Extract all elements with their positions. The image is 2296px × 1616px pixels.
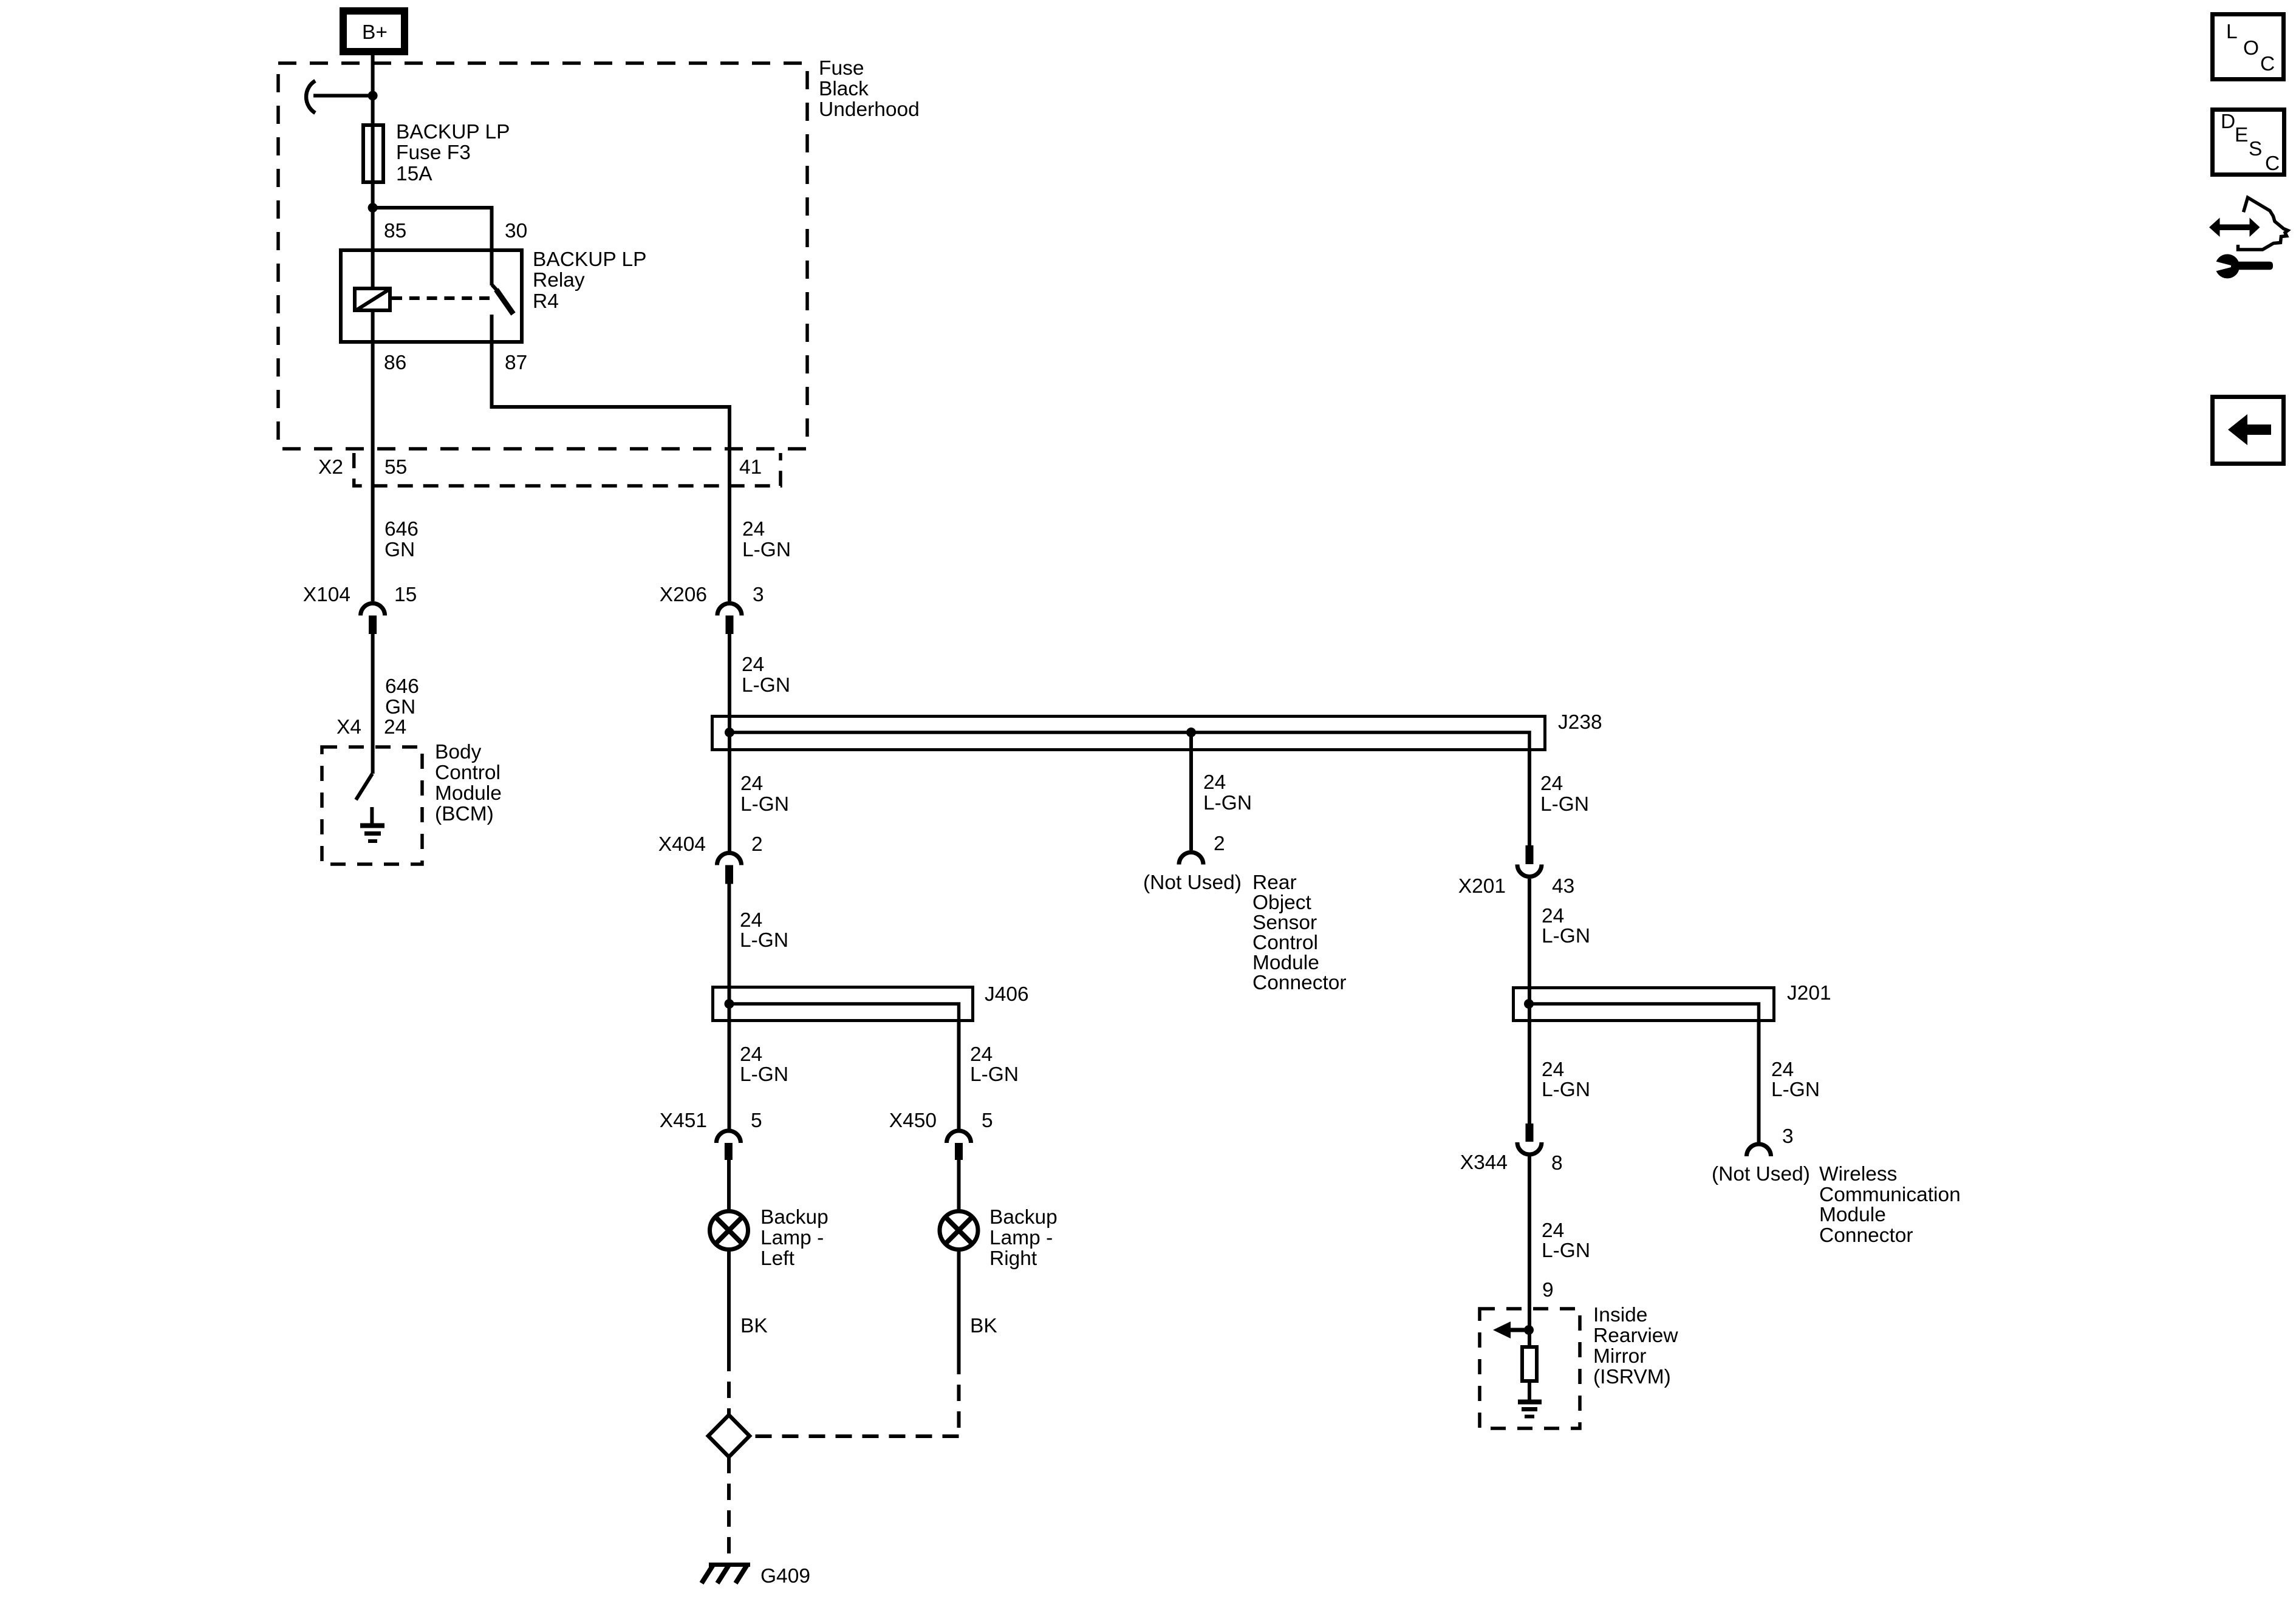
svg-text:2: 2 (1214, 833, 1225, 855)
wire label 646 GN lower (385, 675, 419, 718)
relay switch contact 30 (490, 248, 494, 285)
svg-text:Module: Module (1819, 1204, 1886, 1226)
svg-text:Relay: Relay (533, 269, 585, 291)
connector X2 dashed bracket (354, 453, 781, 486)
svg-text:Wireless: Wireless (1819, 1163, 1897, 1185)
svg-text:87: 87 (505, 352, 527, 374)
svg-text:Inside: Inside (1593, 1304, 1647, 1326)
svg-text:Control: Control (435, 762, 501, 784)
svg-text:L-GN: L-GN (1540, 793, 1589, 816)
icon LOC box (2213, 15, 2284, 80)
connector X206 pin 3 (660, 584, 764, 634)
relay switch contact 87 (490, 315, 494, 344)
wire label 646 GN upper (384, 518, 419, 561)
connector X450 pin 5 (889, 1110, 993, 1160)
icon DESC box (2213, 110, 2284, 176)
svg-text:C: C (2260, 53, 2275, 75)
wire mid branch J238 to not-used connector (1189, 732, 1193, 850)
svg-text:43: 43 (1552, 875, 1574, 898)
wire pin 87 down right through X2 pin 41 (492, 344, 730, 601)
svg-text:(BCM): (BCM) (435, 803, 494, 825)
wire label 24 L-GN below J238 left (740, 772, 789, 816)
svg-text:24: 24 (740, 1043, 762, 1066)
svg-text:Fuse: Fuse (819, 57, 864, 80)
svg-text:X4: X4 (337, 716, 361, 738)
svg-text:L-GN: L-GN (1542, 925, 1590, 947)
fuse block dashed box Fuse Black Underhood (278, 63, 807, 449)
relay R4 box (341, 248, 646, 342)
svg-text:(Not Used): (Not Used) (1143, 871, 1242, 894)
wire J406 right to X450 (957, 1022, 961, 1129)
svg-text:X450: X450 (889, 1110, 937, 1132)
svg-text:Mirror: Mirror (1593, 1345, 1646, 1368)
svg-text:O: O (2243, 37, 2259, 60)
svg-text:X201: X201 (1458, 875, 1506, 898)
ISRVM earth ground (1518, 1402, 1542, 1417)
junction node above relay (368, 203, 378, 213)
svg-text:BACKUP LP: BACKUP LP (533, 248, 646, 271)
splice busbar J406 (713, 983, 1029, 1024)
power symbol B+ (343, 11, 405, 52)
ground G409 (702, 1565, 810, 1588)
BCM earth ground (360, 826, 384, 842)
svg-text:15A: 15A (396, 163, 432, 185)
svg-text:646: 646 (385, 675, 419, 698)
junction node at B+ stub (368, 91, 378, 101)
svg-text:R4: R4 (533, 290, 559, 313)
svg-text:Communication: Communication (1819, 1184, 1961, 1206)
svg-text:L-GN: L-GN (970, 1063, 1019, 1086)
svg-text:Lamp -: Lamp - (760, 1227, 824, 1249)
not used connector WCM pin 3 (1712, 1125, 1810, 1185)
svg-text:L-GN: L-GN (740, 793, 789, 816)
ISRVM dashed box (1480, 1309, 1580, 1428)
icon vehicle outline (2238, 197, 2288, 250)
svg-text:86: 86 (384, 352, 406, 374)
wire X404 to J406 (728, 884, 731, 986)
svg-text:Connector: Connector (1252, 972, 1347, 994)
svg-text:BK: BK (740, 1315, 768, 1337)
svg-text:D: D (2221, 111, 2235, 133)
svg-text:646: 646 (384, 518, 419, 540)
wire branch to relay pin 30 (373, 208, 492, 248)
svg-text:Backup: Backup (760, 1206, 829, 1229)
svg-text:24: 24 (1540, 772, 1563, 795)
BCM internal ground stub (370, 807, 374, 824)
svg-text:J201: J201 (1787, 982, 1831, 1004)
svg-text:3: 3 (753, 584, 764, 606)
wire label 24 L-GN right (1540, 772, 1589, 816)
svg-text:X104: X104 (303, 584, 350, 606)
wire J238 through to X404 (728, 715, 731, 852)
svg-text:J406: J406 (985, 983, 1029, 1006)
splice busbar J238 (712, 711, 1602, 753)
wire pin 86 down through X2 pin 55 (371, 312, 375, 601)
wire J238 right to X201 (1528, 751, 1531, 845)
backup lamp right (940, 1206, 1057, 1270)
wire J406 through to X451 (728, 986, 731, 1129)
svg-text:24: 24 (740, 772, 763, 795)
connector X201 pin 43 (1458, 845, 1575, 898)
svg-text:L-GN: L-GN (1542, 1239, 1590, 1262)
connector X104 pin 15 (303, 584, 417, 634)
svg-text:E: E (2235, 124, 2248, 146)
svg-text:L-GN: L-GN (740, 929, 788, 952)
wire lamp left dashed to splice (727, 1355, 731, 1415)
svg-text:Module: Module (435, 782, 502, 805)
svg-text:Body: Body (435, 741, 482, 763)
svg-text:9: 9 (1542, 1279, 1554, 1301)
wire X450 to right lamp (957, 1160, 961, 1212)
svg-text:Object: Object (1252, 892, 1312, 914)
svg-text:L-GN: L-GN (742, 539, 791, 561)
svg-text:8: 8 (1551, 1152, 1563, 1174)
relay switch blade (496, 290, 513, 314)
wire label 24 L-GN mid (1203, 771, 1252, 814)
wire label 24 L-GN (740, 909, 788, 952)
svg-text:(Not Used): (Not Used) (1712, 1163, 1810, 1185)
wire B+ down to fuse and relay coil (371, 55, 375, 287)
svg-text:Rearview: Rearview (1593, 1325, 1678, 1347)
svg-text:GN: GN (385, 696, 415, 718)
stub wire with hook (circuit continues) (313, 94, 373, 98)
svg-text:24: 24 (1542, 1059, 1564, 1081)
icon wrench (2213, 254, 2273, 279)
svg-text:S: S (2249, 138, 2262, 160)
svg-text:Lamp -: Lamp - (989, 1227, 1053, 1249)
connector X344 pin 8 (1460, 1123, 1563, 1174)
svg-text:2: 2 (751, 833, 763, 856)
svg-text:X2: X2 (318, 456, 343, 479)
svg-text:GN: GN (384, 539, 415, 561)
svg-text:Backup: Backup (989, 1206, 1057, 1229)
svg-text:(ISRVM): (ISRVM) (1593, 1366, 1671, 1388)
svg-text:C: C (2265, 152, 2280, 175)
svg-text:24: 24 (1542, 1219, 1564, 1242)
svg-text:Black: Black (819, 78, 869, 100)
svg-text:X451: X451 (660, 1110, 707, 1132)
wire 24 L-GN X206 to J238 (728, 634, 731, 715)
wire J201 right to not-used (1757, 1022, 1761, 1142)
svg-text:24: 24 (740, 909, 762, 932)
svg-text:J238: J238 (1558, 711, 1602, 734)
svg-text:B+: B+ (362, 21, 388, 44)
BCM internal switch (356, 774, 372, 800)
svg-text:L: L (2226, 21, 2238, 43)
wire X201 to J201 (1528, 879, 1531, 986)
label Rear Object Sensor Control Module Connector (1252, 871, 1347, 994)
connector X4 pin 24 labels (337, 716, 406, 738)
svg-text:L-GN: L-GN (1542, 1079, 1590, 1101)
svg-text:Module: Module (1252, 952, 1319, 974)
wire X451 to left lamp (727, 1160, 731, 1212)
svg-text:Left: Left (760, 1247, 795, 1270)
splice diamond (708, 1415, 750, 1457)
ISRVM junction node (1524, 1325, 1534, 1335)
BCM dashed box (322, 747, 422, 864)
wire lamp right BK (957, 1250, 961, 1358)
svg-text:24: 24 (1203, 771, 1226, 794)
svg-text:24: 24 (742, 518, 765, 540)
svg-text:X404: X404 (658, 833, 706, 856)
ISRVM arrow left (1493, 1321, 1529, 1338)
svg-text:Fuse F3: Fuse F3 (396, 141, 471, 164)
svg-text:24: 24 (384, 716, 406, 738)
svg-text:L-GN: L-GN (742, 674, 790, 697)
svg-text:5: 5 (982, 1110, 993, 1132)
wire lamp left BK (727, 1250, 731, 1355)
svg-text:85: 85 (384, 220, 406, 242)
svg-text:Control: Control (1252, 932, 1318, 954)
wire label 24 L-GN upper (742, 518, 791, 561)
wire label 24 L-GN (1542, 1219, 1590, 1262)
relay coil (355, 288, 390, 310)
wire J201 through to X344 (1528, 986, 1531, 1123)
wire splice to ground dashed (727, 1457, 731, 1562)
svg-text:Rear: Rear (1252, 871, 1297, 894)
svg-text:24: 24 (970, 1043, 993, 1066)
icon double arrow (2209, 218, 2260, 237)
svg-text:15: 15 (394, 584, 417, 606)
backup lamp left (710, 1206, 829, 1270)
svg-text:30: 30 (505, 220, 527, 242)
wire label 24 L-GN (1542, 905, 1590, 947)
ISRVM resistor (1522, 1347, 1537, 1381)
svg-text:24: 24 (1542, 905, 1564, 927)
svg-text:24: 24 (1771, 1059, 1794, 1081)
wire resistor to ground (1528, 1383, 1531, 1400)
connector X451 pin 5 (660, 1110, 762, 1160)
svg-text:Right: Right (989, 1247, 1037, 1270)
icon back arrow box (2213, 397, 2284, 464)
wire labels 24 L-GN below J201 (1542, 1059, 1820, 1101)
svg-text:L-GN: L-GN (1771, 1079, 1820, 1101)
svg-text:41: 41 (739, 456, 762, 479)
svg-text:L-GN: L-GN (740, 1063, 788, 1086)
splice busbar J201 (1514, 982, 1831, 1024)
svg-text:L-GN: L-GN (1203, 792, 1252, 814)
svg-text:3: 3 (1782, 1125, 1794, 1148)
svg-text:Sensor: Sensor (1252, 912, 1317, 934)
svg-text:BK: BK (970, 1315, 997, 1337)
relay actuator dashed link (392, 296, 490, 300)
svg-text:BACKUP LP: BACKUP LP (396, 121, 510, 143)
svg-text:X206: X206 (660, 584, 707, 606)
wire lamp right dashed to splice (750, 1358, 959, 1436)
svg-text:55: 55 (384, 456, 407, 479)
wire label 24 L-GN (742, 653, 790, 697)
fuse F3 15A (363, 121, 510, 185)
svg-text:24: 24 (742, 653, 764, 676)
svg-text:X344: X344 (1460, 1151, 1508, 1174)
svg-text:G409: G409 (760, 1565, 810, 1587)
wire 646 GN to BCM (371, 634, 375, 774)
svg-text:Connector: Connector (1819, 1224, 1913, 1247)
connector X404 pin 2 (658, 833, 763, 884)
label Wireless Communication Module Connector (1819, 1163, 1961, 1247)
svg-text:Underhood: Underhood (819, 98, 920, 121)
wire X344 to ISRVM (1528, 1156, 1531, 1345)
svg-text:5: 5 (751, 1110, 762, 1132)
wire labels 24 L-GN below J406 (740, 1043, 1019, 1086)
not used connector ROSCM pin 2 (1143, 833, 1242, 894)
